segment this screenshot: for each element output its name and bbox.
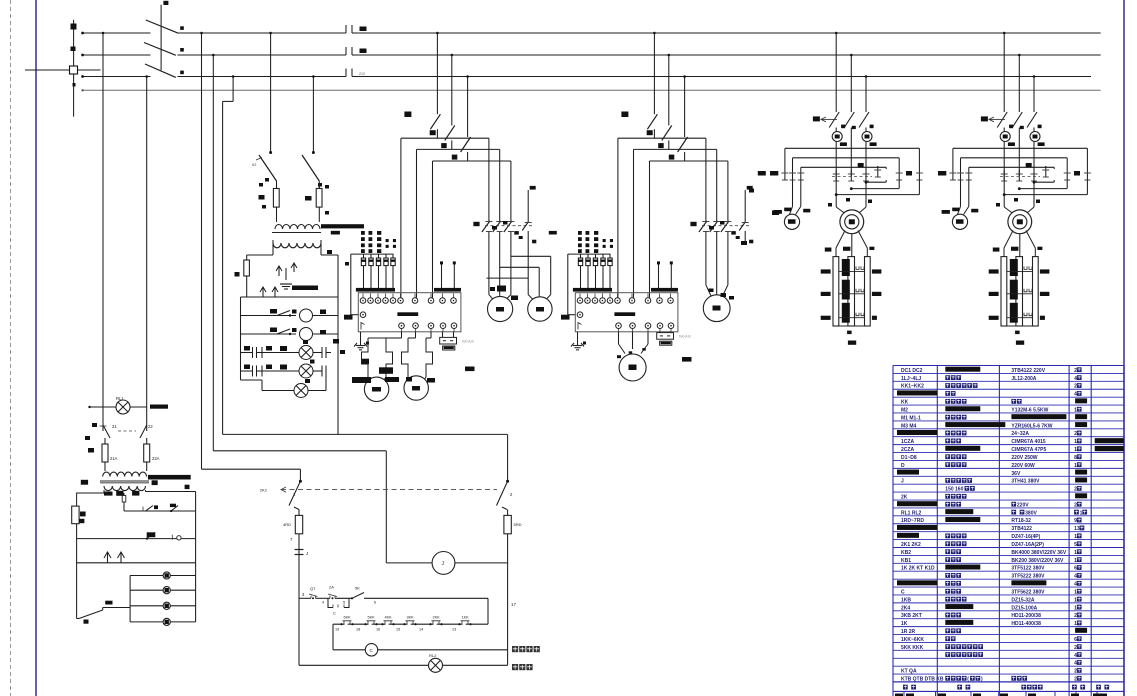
terminal marking text block starter1 <box>332 231 396 253</box>
pole label blocks <box>180 26 184 74</box>
svg-text:21: 21 <box>112 424 117 429</box>
svg-text:2K4: 2K4 <box>901 605 910 611</box>
fuse 2 lamp transformer <box>305 185 329 216</box>
svg-text:C: C <box>901 589 905 595</box>
meter circle left hoist2 <box>1000 128 1015 207</box>
brake coil wires hoist2 <box>942 180 979 215</box>
transformer KB primary <box>275 216 320 229</box>
lamp RL2 <box>299 653 508 672</box>
svg-text:1K 2K KT K1D: 1K 2K KT K1D <box>901 566 935 572</box>
svg-text:2KK: 2KK <box>433 616 441 620</box>
svg-text:16: 16 <box>376 628 380 632</box>
svg-text:1K: 1K <box>901 621 908 627</box>
svg-text:KB2: KB2 <box>901 550 911 556</box>
svg-text:2: 2 <box>510 492 513 497</box>
wire feeder A (L1 to control) <box>200 32 300 482</box>
svg-text:DZ15-32A: DZ15-32A <box>1011 597 1034 603</box>
motor rotor hoist1 <box>840 210 864 234</box>
contact labels starter1 <box>473 221 536 243</box>
contact 5K <box>351 586 488 625</box>
KK chain numbers <box>335 628 456 632</box>
svg-text:KK: KK <box>901 400 909 406</box>
rail inner hoist1 <box>801 167 886 169</box>
bus terminal column <box>71 20 77 117</box>
wire drop lamp transformer 1 <box>269 32 272 154</box>
switch K2 blade 2 <box>302 155 322 189</box>
svg-text:3TF5222 380V: 3TF5222 380V <box>1011 574 1045 580</box>
svg-text:4: 4 <box>1074 653 1077 659</box>
wire drop to RL1 left <box>102 32 105 431</box>
motor wires taper hoist2 <box>996 198 1040 214</box>
resistor bottom tie hoist2 <box>1001 326 1038 345</box>
thermal element M2 starter1 <box>402 332 433 383</box>
wire phase 2 run starter1 <box>417 149 500 297</box>
meter circle right hoist1 <box>862 128 877 207</box>
wire phase 1 run starter1 <box>401 138 489 298</box>
bus bar left starter1 <box>356 288 395 292</box>
contact labels starter2 <box>690 221 753 243</box>
breaker blade 1 starter1 <box>430 32 440 139</box>
bus bar left starter2 <box>573 288 612 292</box>
fuse 4 starter2 <box>601 254 605 288</box>
main switch QS blade 3 <box>145 64 176 77</box>
contact row left hoist2 <box>938 169 972 180</box>
relay J coil <box>386 552 507 575</box>
wire phase 2 run starter2 <box>634 149 717 297</box>
terminal block starter2 <box>575 293 678 332</box>
contact 1KK <box>458 616 471 626</box>
svg-text:K2: K2 <box>252 163 256 167</box>
wire phase 1 run starter2 <box>618 138 706 298</box>
svg-text:4KK: 4KK <box>385 616 393 620</box>
switch K2 blade 1 <box>252 155 277 189</box>
breaker blade 2 starter1 <box>445 54 455 150</box>
svg-text:Y132M-6 5.5KW: Y132M-6 5.5KW <box>1011 407 1048 413</box>
svg-text:2: 2 <box>1074 502 1077 508</box>
row latch contact <box>77 532 196 540</box>
fuse 22A <box>144 438 160 470</box>
svg-text:1R 2R: 1R 2R <box>901 629 916 635</box>
svg-text:1: 1 <box>1074 605 1077 611</box>
svg-text:YZR160L5-6 7KW: YZR160L5-6 7KW <box>1011 423 1052 429</box>
parts table grid <box>893 366 1124 696</box>
brake coil hoist2 <box>952 214 967 229</box>
fuse left branch <box>72 506 86 618</box>
svg-text:4: 4 <box>1074 392 1077 398</box>
label relay right <box>512 646 540 652</box>
svg-text:DC1 DC2: DC1 DC2 <box>901 368 923 374</box>
svg-text:2: 2 <box>1074 613 1077 619</box>
motor blobs starter2 <box>709 171 780 300</box>
svg-text:2CZA: 2CZA <box>901 447 914 453</box>
reactor box starter1 <box>440 332 475 371</box>
svg-text:6: 6 <box>374 601 376 605</box>
svg-text:2: 2 <box>1074 676 1077 682</box>
svg-text:BK200 380V/220V 36V: BK200 380V/220V 36V <box>1011 558 1064 564</box>
svg-text:3TF5622 380V: 3TF5622 380V <box>1011 589 1045 595</box>
lamp row 3 indicator <box>241 339 346 360</box>
svg-text:1: 1 <box>1074 597 1077 603</box>
bus stub L1 <box>81 32 150 35</box>
terminal ladder rungs <box>130 572 196 626</box>
resistor tap level 2 hoist1 <box>821 280 882 300</box>
svg-text:KK1~KK2: KK1~KK2 <box>901 384 924 390</box>
svg-text:KB1: KB1 <box>901 558 911 564</box>
lamp row 1 switch and bell <box>241 309 339 322</box>
contactor contact 1 starter1 <box>482 218 493 236</box>
brake coil wires hoist1 <box>774 180 811 215</box>
contactor contact 3 starter2 <box>721 218 732 236</box>
resistor tap level 1 hoist1 <box>821 259 882 276</box>
rail mid hoist2 <box>961 158 1068 169</box>
svg-text:6: 6 <box>1074 566 1077 572</box>
resistor body 2 hoist2 <box>1016 257 1023 326</box>
svg-text:5RD: 5RD <box>514 522 522 527</box>
motor M below-1 starter1 <box>364 377 388 401</box>
row fork contacts <box>77 552 196 563</box>
svg-text:C: C <box>333 611 336 616</box>
fuse 4RD <box>283 510 303 666</box>
fuse lamp ladder <box>235 260 250 297</box>
svg-text:5: 5 <box>343 601 345 605</box>
svg-text:36V: 36V <box>1011 471 1021 477</box>
svg-text:1: 1 <box>1074 558 1077 564</box>
svg-text:1: 1 <box>1074 534 1077 540</box>
circuit breaker DC gap L3 <box>346 69 365 77</box>
svg-text:1KB: 1KB <box>901 597 911 603</box>
fuse 3 starter2 <box>593 254 597 288</box>
fuse 1 starter1 <box>361 254 365 288</box>
bus stub L3 <box>81 75 150 78</box>
wire secondary right <box>146 490 196 622</box>
svg-text:DZ47-16A(2P): DZ47-16A(2P) <box>1011 542 1044 548</box>
breaker blade 3 starter1 <box>461 75 471 161</box>
svg-text:14: 14 <box>419 628 423 632</box>
svg-text:3TF5122 380V: 3TF5122 380V <box>1011 566 1045 572</box>
resistor body 3 hoist2 <box>1033 257 1039 326</box>
contactor contact 2 starter1 <box>493 218 504 236</box>
thermal element M1 starter1 <box>362 332 402 383</box>
wire drop lamp transformer 2 <box>312 75 315 154</box>
bottom blade contact <box>77 601 131 624</box>
svg-text:5KK KKK: 5KK KKK <box>901 645 924 651</box>
svg-text:2: 2 <box>1074 368 1077 374</box>
contact 6KK <box>340 616 353 626</box>
wire drop to RL1 right <box>145 75 148 431</box>
terminal block starter1 <box>358 293 461 332</box>
svg-text:24~32A: 24~32A <box>1011 431 1029 437</box>
fuse rail starter2 <box>568 254 611 315</box>
neutral line N <box>81 89 1100 91</box>
main switch QS blade 1 <box>146 20 178 33</box>
bus line L1 <box>177 32 1100 34</box>
contactor contact 2 starter2 <box>710 218 721 236</box>
svg-text:2: 2 <box>1074 384 1077 390</box>
contact row right hoist2 <box>1042 166 1091 180</box>
wire phase 3 run starter2 <box>650 161 728 298</box>
lamp RL1 <box>88 396 168 414</box>
transformer KB1 core <box>81 475 191 485</box>
feeder blades hoist2 <box>997 32 1037 176</box>
contact row center hoist1 <box>832 163 872 181</box>
terminal circles top starter1 <box>360 294 456 304</box>
svg-text:CIMR67A 4015: CIMR67A 4015 <box>1011 439 1045 445</box>
svg-text:1: 1 <box>1074 621 1077 627</box>
svg-text:1: 1 <box>1074 550 1077 556</box>
resistor tap level 3 hoist1 <box>821 303 877 323</box>
reactor box starter2 <box>657 332 692 362</box>
terminal circle aux left starter2 <box>561 312 583 330</box>
contact row center hoist2 <box>1000 163 1040 181</box>
resistor tap level 1 hoist2 <box>989 259 1050 276</box>
motor M right-1 starter1 <box>488 296 513 321</box>
motor M below starter2 <box>619 354 646 381</box>
motor wires below starter2 <box>619 332 649 354</box>
motor to resistor wires hoist1 <box>825 231 875 257</box>
breaker blade 3 starter2 <box>678 75 688 161</box>
bus line L2 <box>177 54 1100 56</box>
border frame dashed outer <box>10 0 12 696</box>
svg-text:BK4000 380V/220V 36V: BK4000 380V/220V 36V <box>1011 550 1066 556</box>
motor wires cross starter1 <box>487 236 551 301</box>
contact J NO <box>295 550 309 557</box>
bus bar right starter1 <box>434 288 461 292</box>
svg-text:13: 13 <box>1074 526 1080 532</box>
motor to resistor wires hoist2 <box>993 231 1043 257</box>
contact 5KK <box>364 616 377 626</box>
return wires hoist2 <box>1003 180 1088 196</box>
fuse 4 starter1 <box>384 254 388 288</box>
linkage dashed control <box>260 487 497 493</box>
svg-text:2K2: 2K2 <box>260 488 268 493</box>
svg-text:4RD: 4RD <box>283 522 291 527</box>
svg-text:D: D <box>901 463 905 469</box>
svg-text:RT18-32: RT18-32 <box>1011 518 1031 524</box>
svg-text:17: 17 <box>511 602 517 607</box>
svg-text:19: 19 <box>335 628 339 632</box>
control blade 2 <box>497 480 514 510</box>
svg-text:5: 5 <box>1074 542 1077 548</box>
blade arrow hoist1 <box>813 116 837 121</box>
terminal circles top starter2 <box>577 294 673 304</box>
resistor body 3 hoist1 <box>865 257 871 326</box>
lamp row 2 switch and bell <box>241 328 339 345</box>
svg-text:8: 8 <box>1074 455 1077 461</box>
svg-text:2K1 2K2: 2K1 2K2 <box>901 542 921 548</box>
motor M right-2 starter1 <box>528 297 552 321</box>
fuse rail starter1 <box>351 254 394 315</box>
svg-text:KT QA: KT QA <box>901 669 917 675</box>
svg-text:3KK: 3KK <box>407 616 415 620</box>
svg-text:KTB QTB DTB KB: KTB QTB DTB KB <box>901 676 944 682</box>
border frame right inner <box>1123 0 1125 696</box>
feeder blades hoist1 <box>829 32 869 176</box>
fuse 3 starter1 <box>376 254 380 288</box>
fuse 2 starter1 <box>369 254 373 288</box>
svg-text:6KK: 6KK <box>344 616 352 620</box>
breaker blade 1 starter2 <box>647 32 657 139</box>
svg-text:M1 M1-1: M1 M1-1 <box>901 415 921 421</box>
blade labels starter2 <box>621 112 674 160</box>
svg-text:3TB4122 220V: 3TB4122 220V <box>1011 368 1045 374</box>
resistor bottom tie hoist1 <box>833 326 870 345</box>
rail inner hoist2 <box>969 167 1054 169</box>
wire phase 3 run starter1 <box>433 161 511 298</box>
svg-text:1: 1 <box>1074 447 1077 453</box>
svg-text:1KK: 1KK <box>462 616 470 620</box>
bus stub L2 <box>81 54 150 57</box>
contact 4 starter2 <box>739 186 753 244</box>
svg-text:212: 212 <box>359 72 365 76</box>
label lamp right <box>512 664 533 670</box>
transformer KB secondary <box>247 240 349 434</box>
svg-text:5KK: 5KK <box>368 616 376 620</box>
blade labels hoist2 <box>1009 125 1042 130</box>
svg-text:DZ15-100A: DZ15-100A <box>1011 605 1037 611</box>
svg-text:4: 4 <box>1074 661 1077 667</box>
ground starter2 <box>571 332 586 350</box>
wire feeder C (L3 jog to control lamp) <box>223 75 508 481</box>
main switch QS rod <box>161 1 168 71</box>
contact C parallel branch <box>328 598 349 615</box>
svg-text:M2: M2 <box>901 407 908 413</box>
contactor contact 3 starter1 <box>504 218 515 236</box>
svg-text:3TH41 380V: 3TH41 380V <box>1011 479 1040 485</box>
svg-text:1: 1 <box>1074 439 1077 445</box>
motor wire blobs starter1 <box>490 286 518 301</box>
svg-text:18: 18 <box>356 628 360 632</box>
svg-text:tido A.B: tido A.B <box>679 335 691 339</box>
transformer KB1 primary <box>103 470 147 477</box>
wire secondary left <box>77 490 104 506</box>
parts table rows text <box>897 367 1124 683</box>
resistor tap level 3 hoist2 <box>989 303 1045 323</box>
svg-text:4: 4 <box>322 601 324 605</box>
terminal circles bottom starter1 <box>399 323 457 332</box>
meter circle right hoist2 <box>1030 128 1045 207</box>
bus bar right starter2 <box>651 288 678 292</box>
svg-text:3TB4122: 3TB4122 <box>1011 526 1032 532</box>
contact 2KK <box>429 616 442 626</box>
fuse 2 starter2 <box>586 254 590 288</box>
svg-text:QT: QT <box>310 586 316 591</box>
svg-text:RL1 RL2: RL1 RL2 <box>901 510 922 516</box>
svg-text:22: 22 <box>148 424 153 429</box>
rail mid hoist1 <box>793 158 900 169</box>
blade arrow hoist2 <box>981 116 1005 121</box>
svg-text:CIMR67A 47P5: CIMR67A 47P5 <box>1011 447 1046 453</box>
ground symbol lamp block <box>276 263 318 290</box>
fuse 5 starter1 <box>391 254 395 288</box>
svg-text:1RD~7RD: 1RD~7RD <box>901 518 924 524</box>
contact 4KK <box>381 616 394 626</box>
fuse 1 starter2 <box>578 254 582 288</box>
return wires hoist1 <box>835 180 920 196</box>
svg-text:D1~D8: D1~D8 <box>901 455 917 461</box>
svg-text:3KB 2KT: 3KB 2KT <box>901 613 922 619</box>
svg-text:DZ47-16(4P): DZ47-16(4P) <box>1011 534 1040 540</box>
fork contacts lamp block <box>241 287 339 380</box>
linkage dashed starter2 <box>702 225 751 227</box>
svg-text:1KK~6KK: 1KK~6KK <box>901 637 924 643</box>
rail outer hoist2 <box>953 148 1088 169</box>
switch 2K1 blades <box>85 423 153 440</box>
linkage dashed starter1 <box>485 225 534 227</box>
motor M below-2 starter1 <box>404 376 428 400</box>
parts table header row <box>895 685 1109 696</box>
aux wires starter1 <box>440 261 456 288</box>
terminal marking text block starter2 <box>549 231 613 253</box>
svg-text:HD11-200/38: HD11-200/38 <box>1011 613 1041 619</box>
motor below labels starter2 <box>617 348 646 358</box>
svg-text:2: 2 <box>1074 487 1077 493</box>
svg-text:tido A.B: tido A.B <box>462 339 474 343</box>
svg-text:4: 4 <box>1074 582 1077 588</box>
circuit breaker DC gap L1 <box>346 25 367 33</box>
contact 3KK <box>403 616 416 626</box>
svg-text:5K: 5K <box>355 586 360 591</box>
svg-text:HD11-400/38: HD11-400/38 <box>1011 621 1041 627</box>
resistor body 1 hoist1 <box>833 257 839 326</box>
fuse center tap <box>122 493 126 511</box>
svg-text:1: 1 <box>1074 407 1077 413</box>
border frame left inner <box>35 0 37 696</box>
svg-text:1: 1 <box>1080 510 1083 516</box>
meter circle left hoist1 <box>832 128 847 207</box>
resistor body 1 hoist2 <box>1001 257 1007 326</box>
control blade 1 <box>289 480 302 510</box>
terminal circles bottom starter2 <box>616 323 674 332</box>
fuse 5 starter2 <box>608 254 612 288</box>
svg-text:22A: 22A <box>152 456 160 461</box>
transformer KB1 secondary <box>104 480 190 496</box>
resistor tap level 2 hoist2 <box>989 280 1050 300</box>
blade labels starter1 <box>404 112 457 160</box>
svg-text:2: 2 <box>1074 431 1077 437</box>
svg-text:1: 1 <box>1074 589 1077 595</box>
svg-text:JL12-200A: JL12-200A <box>1011 376 1036 382</box>
contact row right hoist1 <box>874 166 923 180</box>
svg-text:4: 4 <box>1074 376 1077 382</box>
svg-text:220V 250W: 220V 250W <box>1011 455 1037 461</box>
svg-text:2: 2 <box>1074 669 1077 675</box>
bus line L3 <box>177 76 1091 78</box>
svg-text:2: 2 <box>1074 645 1077 651</box>
svg-text:3: 3 <box>302 592 305 597</box>
svg-text:1: 1 <box>1074 463 1077 469</box>
transformer KB core <box>272 224 364 234</box>
contact 4 starter1 <box>522 186 536 278</box>
fuse 5RD <box>504 510 522 666</box>
fuse 21A <box>88 438 118 470</box>
motor M right starter2 <box>703 295 730 322</box>
svg-text:1LJ~4LJ: 1LJ~4LJ <box>901 376 921 382</box>
contactor C coil <box>333 624 508 656</box>
aux wires starter2 <box>657 261 673 288</box>
svg-text:RL1: RL1 <box>116 396 124 401</box>
svg-text:220V 60W: 220V 60W <box>1011 463 1035 469</box>
fuse 1 lamp transformer <box>259 178 280 216</box>
svg-text:220V: 220V <box>1017 502 1029 508</box>
svg-text:7: 7 <box>290 537 293 542</box>
svg-text:M3 M4: M3 M4 <box>901 423 917 429</box>
wire feeder B (L2 to relay J) <box>212 54 386 563</box>
lamp row 5 indicator <box>241 377 327 398</box>
svg-text:15: 15 <box>396 628 400 632</box>
row safety contacts <box>124 504 196 512</box>
resistor body 2 hoist1 <box>848 257 855 326</box>
svg-text:J: J <box>306 551 308 556</box>
